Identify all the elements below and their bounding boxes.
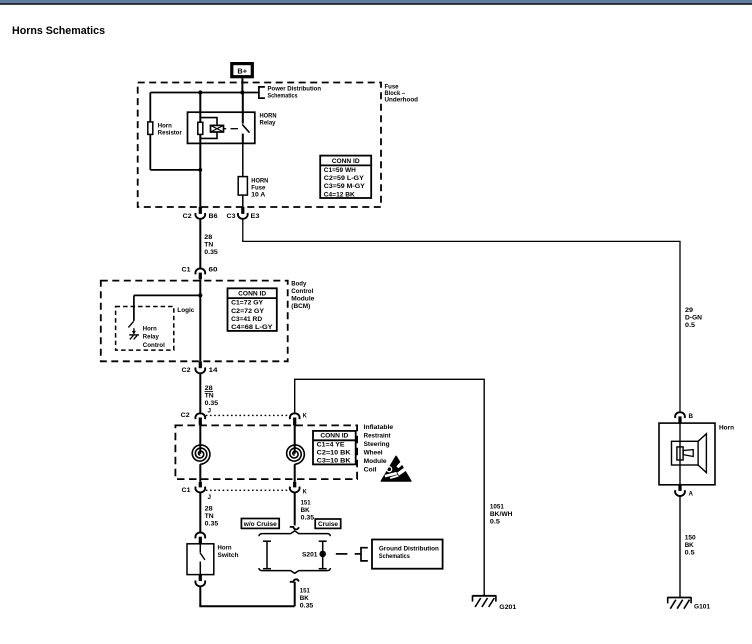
svg-text:C3: C3 [227, 213, 236, 220]
svg-text:C1=72 GY: C1=72 GY [231, 300, 263, 307]
svg-text:Steering: Steering [364, 441, 390, 448]
svg-text:0.35: 0.35 [205, 521, 219, 528]
svg-text:C2: C2 [181, 412, 190, 419]
svg-text:C2=10 BK: C2=10 BK [317, 450, 351, 457]
svg-text:1051: 1051 [490, 504, 504, 511]
svg-text:C1=59 WH: C1=59 WH [324, 167, 356, 174]
svg-text:C2: C2 [183, 213, 192, 220]
svg-text:Relay: Relay [260, 120, 276, 127]
svg-text:C2=72 GY: C2=72 GY [231, 308, 264, 315]
svg-text:J: J [208, 494, 212, 501]
svg-text:C3=10 BK: C3=10 BK [317, 458, 351, 465]
svg-text:Resistor: Resistor [158, 130, 182, 137]
svg-text:Module: Module [364, 458, 387, 465]
svg-text:CONN ID: CONN ID [332, 158, 360, 165]
svg-text:Coil: Coil [364, 466, 377, 473]
svg-text:0.5: 0.5 [685, 322, 695, 329]
svg-text:w/o Cruise: w/o Cruise [243, 521, 277, 528]
svg-text:151: 151 [301, 499, 311, 506]
svg-text:Restraint: Restraint [364, 432, 392, 439]
svg-text:HORN: HORN [251, 178, 268, 185]
svg-text:B6: B6 [209, 213, 218, 220]
svg-text:Control: Control [143, 342, 165, 349]
svg-text:0.35: 0.35 [300, 603, 314, 610]
svg-text:0.5: 0.5 [685, 550, 695, 557]
svg-text:0.35: 0.35 [204, 249, 218, 256]
svg-text:Schematics: Schematics [268, 93, 298, 100]
svg-text:C4=12 BK: C4=12 BK [324, 191, 355, 198]
svg-text:Wheel: Wheel [364, 449, 383, 456]
svg-text:29: 29 [685, 307, 693, 314]
svg-text:Schematics: Schematics [379, 553, 410, 560]
svg-text:HORN: HORN [260, 113, 277, 120]
svg-text:E3: E3 [251, 213, 260, 220]
svg-text:C2: C2 [182, 367, 191, 374]
svg-text:C4=68 L-GY: C4=68 L-GY [231, 324, 273, 331]
svg-text:Cruise: Cruise [318, 521, 338, 528]
svg-text:28: 28 [205, 506, 213, 513]
svg-text:0.35: 0.35 [301, 514, 315, 521]
svg-text:Horn: Horn [719, 424, 734, 431]
svg-text:TN: TN [205, 513, 214, 520]
svg-text:B: B [689, 413, 694, 420]
svg-text:A: A [689, 490, 694, 497]
svg-text:D-GN: D-GN [685, 315, 702, 322]
svg-text:G101: G101 [694, 604, 710, 611]
svg-text:CONN ID: CONN ID [238, 291, 266, 298]
svg-text:Fuse: Fuse [251, 185, 265, 192]
svg-text:(BCM): (BCM) [291, 303, 310, 310]
svg-text:Horn: Horn [143, 325, 157, 332]
svg-text:C1=4 YE: C1=4 YE [317, 442, 345, 449]
svg-text:Body: Body [291, 281, 306, 288]
svg-text:BK/WH: BK/WH [490, 511, 513, 518]
svg-text:K: K [303, 488, 307, 495]
svg-text:TN: TN [205, 393, 214, 400]
svg-text:60: 60 [209, 266, 218, 273]
svg-text:BK: BK [301, 507, 310, 514]
svg-text:J: J [208, 407, 212, 414]
svg-text:BK: BK [300, 595, 309, 602]
svg-text:BK: BK [685, 542, 694, 549]
svg-text:150: 150 [685, 535, 696, 542]
svg-text:Logic: Logic [177, 307, 194, 314]
svg-text:Switch: Switch [218, 552, 239, 559]
svg-text:S201: S201 [302, 552, 318, 559]
svg-text:B+: B+ [237, 66, 247, 75]
svg-text:14: 14 [209, 367, 218, 374]
svg-text:Relay: Relay [143, 334, 159, 341]
svg-text:C3=59 M-GY: C3=59 M-GY [324, 183, 365, 190]
svg-text:C1: C1 [182, 266, 191, 273]
svg-text:C3=41 RD: C3=41 RD [231, 316, 262, 323]
svg-text:0.35: 0.35 [205, 400, 219, 407]
svg-text:Ground Distribution: Ground Distribution [379, 545, 439, 552]
svg-text:Horn: Horn [218, 545, 232, 552]
svg-text:Horns Schematics: Horns Schematics [12, 25, 105, 37]
svg-text:Inflatable: Inflatable [364, 424, 394, 431]
svg-text:Control: Control [291, 288, 313, 295]
svg-text:TN: TN [204, 242, 213, 249]
svg-text:C2=59 L-GY: C2=59 L-GY [324, 175, 364, 182]
svg-text:Module: Module [291, 296, 314, 303]
svg-text:K: K [303, 412, 307, 419]
svg-text:Horn: Horn [158, 123, 172, 130]
svg-text:G201: G201 [499, 604, 516, 611]
svg-text:Underhood: Underhood [385, 97, 419, 104]
svg-text:CONN ID: CONN ID [320, 433, 348, 440]
svg-text:10 A: 10 A [251, 192, 265, 199]
svg-text:C1: C1 [182, 487, 191, 494]
svg-text:0.5: 0.5 [490, 519, 500, 526]
svg-text:151: 151 [300, 588, 310, 595]
svg-text:28: 28 [204, 234, 212, 241]
svg-text:Power Distribution: Power Distribution [268, 86, 322, 93]
